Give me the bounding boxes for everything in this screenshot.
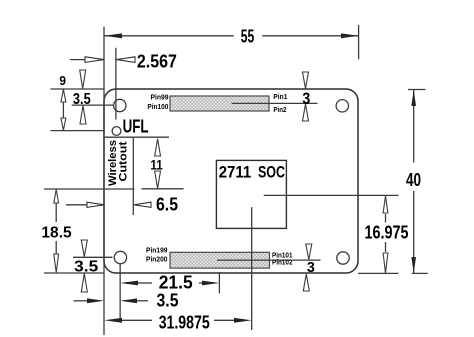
dimension 21.5 line right [199,282,203,284]
wire 11 bottom reference [141,188,183,190]
svg-text:Pin200: Pin200 [146,255,168,264]
arrow 21.5 right [202,281,219,286]
svg-text:Pin99: Pin99 [151,93,169,102]
wire SOC vertical leader [251,207,253,330]
arrow 3 top-right down [303,72,309,89]
svg-text:2711: 2711 [219,163,252,181]
wire bottom-edge extension right [358,272,398,274]
arrow 3.5 top-left up [80,106,86,124]
arrow 6.5 right (outside, points left, hollow) [134,202,151,207]
mounting hole top-left [114,99,126,111]
svg-text:3: 3 [307,259,315,276]
arrow 31.9875 right [234,318,252,323]
svg-text:18.5: 18.5 [41,225,72,242]
svg-text:9: 9 [59,74,66,88]
wire top connector center line [232,102,318,104]
svg-text:40: 40 [406,170,421,190]
dimension 2.567 tails [70,59,87,61]
dimension 16.975 stems [385,214,387,223]
wire SOC horizontal leader [264,194,399,196]
wire bottom hole extension down [119,264,121,319]
wire UFL center line [50,130,104,132]
svg-text:Pin2: Pin2 [273,105,286,114]
arrow 21.5 left [120,281,138,286]
arrow 2.567 left (outside, points right, hollow) [85,57,104,63]
arrow 40 up [411,90,416,107]
arrow 11 down [155,171,161,188]
svg-text:Pin100: Pin100 [147,102,168,111]
arrow 16.975 up [383,196,388,213]
svg-text:11: 11 [150,157,163,173]
wire left-edge extension line [103,27,105,335]
wire top-edge extension left [50,88,104,90]
wire bottom-edge extension left [44,272,104,274]
arrowheads (filled horizontal) [85,33,359,322]
arrow 18.5 down [54,254,59,273]
vertical filled arrows for 40 [411,90,416,274]
connector bottom hatched strip [170,252,270,268]
dimension 40 line [413,90,415,163]
svg-text:3.5: 3.5 [74,259,98,276]
mounting hole bottom-left [114,251,126,263]
svg-text:3.5: 3.5 [157,291,179,311]
wire bottom hole center line [73,256,113,258]
wire bottom connector center line [217,259,321,261]
arrow 3 bottom-right up [303,274,309,291]
svg-text:3: 3 [302,90,310,108]
arrow 3.5 bottom right (outside, points left) [120,298,137,303]
mounting hole bottom-right [337,252,349,264]
wire 55 right extension line [358,25,360,59]
wire 21.5 right extension [218,272,220,293]
svg-text:Pin199: Pin199 [146,245,168,254]
wire 40 top reference tick [408,89,425,91]
svg-text:3.5: 3.5 [73,91,91,108]
arrow 3 top-right up [303,104,309,121]
arrow 3 bottom-right down [306,244,312,260]
connector top hatched strip [170,96,269,111]
UFL connector circle [112,127,121,136]
arrow 2.567 right (outside, points left, hollow) [117,57,136,63]
wire top hole center line [72,104,114,106]
arrow 6.5 left (outside, points right, hollow) [87,202,104,207]
dimension 21.5 line left [136,282,152,284]
SOC box U1 [216,160,286,228]
arrow 3.5 bottom left (outside, points right) [87,298,104,303]
svg-text:Pin102: Pin102 [272,257,293,266]
dimension 55 line [104,35,234,37]
arrow 55 right [341,33,359,38]
arrow 11 up [155,139,161,156]
svg-text:31.9875: 31.9875 [159,312,210,332]
wire 40 bottom reference tick [412,272,428,274]
arrow 31.9875 left [104,318,122,323]
svg-text:UFL: UFL [123,117,149,137]
vertical open-triangle arrows [54,70,388,292]
arrow 9 up [61,90,66,103]
arrow 3.5 top-left down [80,70,86,89]
svg-text:Pin1: Pin1 [273,92,287,101]
arrow 55 left [104,33,122,38]
dimension 31.9875 line [120,319,152,321]
svg-text:2.567: 2.567 [137,51,177,71]
wireless cutout right edge [132,137,134,215]
svg-text:SOC: SOC [258,163,285,181]
svg-text:6.5: 6.5 [156,195,178,215]
board outline [104,89,358,273]
svg-text:Cutout: Cutout [118,141,130,181]
wireless cutout top line [104,136,169,138]
arrow 9 down [61,118,66,130]
svg-text:16.975: 16.975 [365,223,409,243]
dimension 9 line [62,89,64,131]
arrow 16.975 down [383,253,388,273]
arrow 3.5 bottom-left down [81,240,87,257]
arrow 18.5 up [54,189,59,203]
wire 2.567 extension line [115,48,117,120]
wireless cutout bottom line [44,188,135,190]
arrow 40 down [411,257,416,273]
svg-text:55: 55 [241,27,255,47]
dimension 18.5 stems [55,196,57,222]
mounting hole top-right [336,100,348,112]
dimension 3.5 bottom tails [74,300,88,302]
arrow 3.5 bottom-left up [81,274,87,293]
svg-text:21.5: 21.5 [159,273,193,293]
dimension 6.5 tails [66,204,89,206]
